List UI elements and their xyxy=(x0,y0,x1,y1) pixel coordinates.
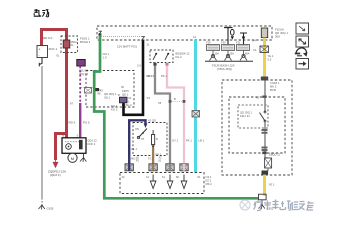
input arrow grey xyxy=(167,175,173,189)
watermark text 汽车电路维修资料 xyxy=(254,200,314,211)
park/neutral contact dashed box xyxy=(150,50,173,63)
svg-text:(QDJ 1): (QDJ 1) xyxy=(50,173,61,177)
fuse F31 with feed xyxy=(243,33,245,45)
svg-text:+: + xyxy=(39,48,41,52)
svg-text:C1: C1 xyxy=(253,48,257,52)
relay coil dashed box (underhood electrical center detail) xyxy=(86,71,134,108)
relay logic dashed box xyxy=(238,105,268,128)
svg-text:11: 11 xyxy=(193,35,196,39)
svg-text:25A: 25A xyxy=(230,53,235,56)
ground stub xyxy=(261,200,263,205)
svg-text:KZLJ 34: KZLJ 34 xyxy=(240,114,250,118)
internal wire middle xyxy=(264,122,266,152)
fuse F30 with breaker loop xyxy=(227,27,229,45)
BCM bottom connector xyxy=(262,171,269,175)
svg-text:KG 2: KG 2 xyxy=(111,108,118,112)
ground junction box xyxy=(259,194,267,200)
svg-text:MK 2: MK 2 xyxy=(270,84,277,88)
fuse row: fuse F29 xyxy=(207,45,220,51)
watermark logo xyxy=(240,200,250,210)
purple wire to starter S xyxy=(79,103,81,138)
svg-text:F30: F30 xyxy=(221,41,226,45)
svg-text:DL 1: DL 1 xyxy=(132,147,138,151)
svg-text:XL: XL xyxy=(71,43,75,47)
svg-text:BSQDW 12: BSQDW 12 xyxy=(176,52,190,56)
svg-text:R: R xyxy=(156,137,158,141)
svg-text:42 QD: 42 QD xyxy=(148,119,156,123)
svg-text:RD 6.0: RD 6.0 xyxy=(43,36,53,40)
svg-text:QD JDQ 1: QD JDQ 1 xyxy=(104,92,117,96)
ground G302 xyxy=(259,205,265,210)
cyan wire run/crank xyxy=(194,40,197,173)
svg-text:PK 1: PK 1 xyxy=(186,139,192,143)
ignition switch feed connector xyxy=(120,97,128,103)
battery positive red wire xyxy=(42,30,67,139)
svg-text:F31: F31 xyxy=(236,41,241,45)
svg-text:30A: 30A xyxy=(275,35,280,39)
svg-text:KR75: KR75 xyxy=(122,89,129,93)
BCM inner dashed box xyxy=(229,97,285,153)
svg-text:KG 2: KG 2 xyxy=(176,55,183,59)
svg-text:PK 1: PK 1 xyxy=(161,74,167,78)
svg-text:XDC 1: XDC 1 xyxy=(49,47,58,51)
yellow inline connector xyxy=(260,46,269,53)
svg-text:F29: F29 xyxy=(206,41,211,45)
ignition switch dashed box xyxy=(133,123,167,156)
navy wire from switch xyxy=(129,120,145,164)
svg-text:40A: 40A xyxy=(245,53,250,56)
brown wire xyxy=(152,148,154,164)
black pin symbol xyxy=(142,37,145,40)
contact N xyxy=(167,53,169,55)
svg-text:GY 1: GY 1 xyxy=(148,74,155,78)
svg-text:DCF 2: DCF 2 xyxy=(88,142,96,146)
pink connector xyxy=(180,164,188,171)
svg-text:X3: X3 xyxy=(147,96,151,100)
svg-text:B: B xyxy=(174,97,176,101)
svg-text:X2: X2 xyxy=(100,89,104,93)
svg-text:JDQ 34: JDQ 34 xyxy=(79,72,89,76)
svg-text:30A: 30A xyxy=(215,53,220,56)
cyan inline connector xyxy=(192,111,200,118)
svg-text:YE 1: YE 1 xyxy=(268,54,274,58)
svg-text:M: M xyxy=(71,156,74,161)
svg-text:87: 87 xyxy=(70,102,73,106)
viewer icon: zoom-in xyxy=(296,36,309,47)
yellow wire lower xyxy=(263,175,266,196)
svg-text:X4: X4 xyxy=(253,39,257,43)
svg-text:ST: ST xyxy=(141,137,145,141)
red branch to generator xyxy=(56,134,69,161)
contact circle xyxy=(66,144,72,150)
svg-text:X5: X5 xyxy=(158,101,162,105)
svg-text:X1: X1 xyxy=(56,54,60,58)
pink wire from N contact xyxy=(167,63,184,165)
svg-text:LB 1: LB 1 xyxy=(199,139,205,143)
svg-text:2.0: 2.0 xyxy=(137,64,141,68)
viewer icon: zoom-out xyxy=(296,23,309,34)
svg-text:S: S xyxy=(77,134,79,138)
grey pin mark xyxy=(153,63,156,66)
exit connector box xyxy=(265,158,272,168)
contact P xyxy=(155,53,157,55)
svg-text:YE 1: YE 1 xyxy=(269,183,276,187)
inner box exit junction xyxy=(262,152,266,155)
svg-text:1.0: 1.0 xyxy=(103,55,107,59)
fuse block bus bar xyxy=(205,60,253,62)
svg-text:CS 1: CS 1 xyxy=(206,175,212,179)
svg-text:BXSH 2: BXSH 2 xyxy=(80,40,91,44)
ground G105 xyxy=(39,205,45,210)
svg-text:XQ 1: XQ 1 xyxy=(104,96,111,100)
svg-text:CSKZ 1: CSKZ 1 xyxy=(270,81,280,85)
switch blade xyxy=(139,129,148,138)
yellow to BCM junction xyxy=(261,77,268,81)
svg-text:QD JDQ 1: QD JDQ 1 xyxy=(240,111,253,115)
internal lower jog xyxy=(265,154,268,158)
green wire battery voltage xyxy=(94,33,258,198)
BCM outer dashed box xyxy=(222,80,292,175)
mega fuse F1 xyxy=(63,40,70,48)
fuse row drops with fork terminals xyxy=(210,51,248,61)
grey connector xyxy=(166,164,174,171)
svg-text:21: 21 xyxy=(147,43,151,47)
battery negative lead hook xyxy=(39,58,42,67)
title 起动 xyxy=(34,9,49,17)
switch resistor xyxy=(152,135,155,145)
yellow wire upper xyxy=(263,38,266,78)
svg-text:QDJ 12: QDJ 12 xyxy=(88,139,98,143)
internal switch xyxy=(260,113,266,122)
svg-text:B: B xyxy=(63,134,65,138)
BCM lower dashed box xyxy=(120,173,204,194)
connector row above BCM: navy connector xyxy=(125,164,133,171)
yellow crank fuse xyxy=(261,28,267,38)
battery xyxy=(37,46,48,58)
svg-text:GY 1: GY 1 xyxy=(172,139,179,143)
svg-text:RD 6: RD 6 xyxy=(69,121,76,125)
brown connector xyxy=(149,164,157,171)
motor circle xyxy=(68,153,77,162)
internal wire upper xyxy=(264,81,266,113)
twisted pair marker xyxy=(170,101,184,103)
grey wire from P contact xyxy=(155,63,170,165)
svg-text:DBQD 12: DBQD 12 xyxy=(269,153,281,157)
coil symbol box xyxy=(85,88,92,94)
starter ground xyxy=(83,153,85,157)
purple dashed wire (inside fuse block) xyxy=(79,66,81,103)
dotted rule linking connector pins xyxy=(101,36,142,38)
mega fuse dashed box xyxy=(61,36,78,53)
black wire from fuse block xyxy=(124,40,144,115)
svg-text:-: - xyxy=(39,54,40,58)
underhood fuse block dashed box X50A xyxy=(97,26,272,40)
svg-text:PU 5: PU 5 xyxy=(83,121,90,125)
green inline connector xyxy=(95,88,99,91)
solenoid linkage xyxy=(65,141,79,143)
svg-text:BCM: BCM xyxy=(270,88,277,92)
pink pin mark xyxy=(165,63,168,66)
battery ground wire xyxy=(41,66,43,198)
svg-text:ON: ON xyxy=(135,127,139,131)
purple connector block xyxy=(77,60,85,67)
svg-text:KZ 2: KZ 2 xyxy=(206,178,212,182)
svg-text:12V BATT FD1: 12V BATT FD1 xyxy=(117,45,137,49)
svg-text:G105: G105 xyxy=(47,207,54,211)
starter motor box xyxy=(62,138,86,154)
svg-text:B: B xyxy=(118,93,120,97)
arrow to generator xyxy=(53,160,58,167)
viewer icon: next xyxy=(296,59,309,70)
green pin symbol xyxy=(99,31,102,35)
svg-text:QD 1: QD 1 xyxy=(122,93,129,97)
svg-text:(X50A JDQ): (X50A JDQ) xyxy=(217,67,232,71)
input arrow brown xyxy=(150,175,156,189)
svg-text:0.5: 0.5 xyxy=(268,57,272,61)
viewer icon: rotate xyxy=(296,48,306,55)
input arrow pink xyxy=(181,175,187,189)
internal connector bars xyxy=(262,129,268,131)
svg-text:MK 2: MK 2 xyxy=(206,182,213,186)
navy arrow tip xyxy=(144,124,148,129)
solenoid plunger xyxy=(79,140,83,150)
svg-text:30: 30 xyxy=(121,85,124,89)
